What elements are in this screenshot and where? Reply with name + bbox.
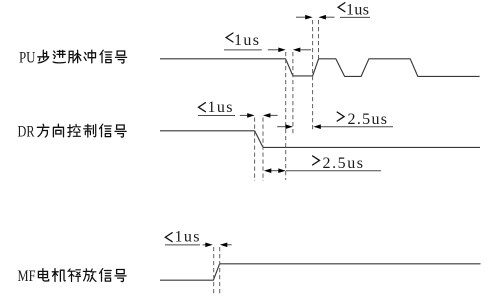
svg-text:DR: DR bbox=[18, 124, 36, 141]
svg-text:1us: 1us bbox=[208, 99, 233, 116]
svg-text:PU: PU bbox=[19, 50, 36, 67]
svg-text:MF: MF bbox=[18, 268, 36, 285]
svg-text:1us: 1us bbox=[234, 32, 259, 49]
svg-text:2.5us: 2.5us bbox=[323, 155, 364, 172]
svg-text:1us: 1us bbox=[175, 228, 200, 245]
svg-text:2.5us: 2.5us bbox=[348, 111, 388, 128]
svg-text:1us: 1us bbox=[346, 1, 369, 18]
